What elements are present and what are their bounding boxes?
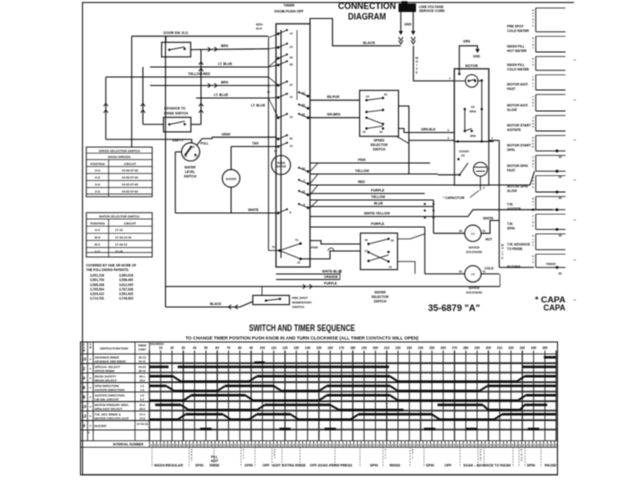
svg-text:BUZZER: BUZZER bbox=[226, 177, 237, 181]
svg-text:SPIN: SPIN bbox=[370, 464, 379, 468]
svg-text:TO CHANGE TIMER POSITION PUSH: TO CHANGE TIMER POSITION PUSH KNOB IN AN… bbox=[186, 336, 420, 341]
wire BLACK service to timer bbox=[310, 19, 401, 46]
wire hot solenoid to white bbox=[481, 221, 499, 234]
wire BRN lower bbox=[150, 85, 269, 87]
svg-text:4PM: 4PM bbox=[470, 134, 476, 138]
wire speed selector corner diagonal bbox=[397, 136, 409, 143]
svg-text:15: 15 bbox=[290, 115, 294, 119]
svg-text:WASH-REGULAR: WASH-REGULAR bbox=[154, 464, 183, 468]
svg-text:80: 80 bbox=[238, 346, 242, 350]
svg-text:170: 170 bbox=[339, 346, 345, 350]
svg-text:180: 180 bbox=[350, 346, 356, 350]
svg-text:50: 50 bbox=[204, 346, 208, 350]
wire crossover bumps bbox=[424, 203, 426, 205]
svg-text:260: 260 bbox=[441, 346, 447, 350]
svg-text:10: 10 bbox=[159, 346, 163, 350]
wire GRN motor ground bbox=[459, 46, 477, 74]
wire PURPLE band bbox=[310, 193, 425, 195]
svg-text:WHITE: WHITE bbox=[248, 208, 259, 212]
wire buzzer bottom bbox=[230, 187, 232, 213]
svg-text:YY: YY bbox=[471, 272, 475, 276]
svg-text:100: 100 bbox=[260, 346, 266, 350]
svg-text:LT. BLUE: LT. BLUE bbox=[218, 62, 233, 66]
svg-text:S-S: S-S bbox=[95, 190, 100, 194]
door switch S1 bbox=[162, 42, 191, 57]
speed selector switch S4 bbox=[360, 90, 399, 136]
wire drop to advance rinse right bbox=[200, 50, 202, 125]
svg-text:WHITE: WHITE bbox=[483, 217, 493, 221]
svg-text:H-S: H-S bbox=[95, 176, 100, 180]
svg-text:3,561,703: 3,561,703 bbox=[90, 278, 104, 282]
svg-text:FULL: FULL bbox=[201, 142, 209, 146]
svg-text:WH-BRN: WH-BRN bbox=[327, 112, 341, 116]
svg-text:3,526,412: 3,526,412 bbox=[90, 292, 104, 296]
wire GRAY bbox=[212, 136, 276, 138]
wire drop to advance rinse left bbox=[142, 67, 144, 124]
svg-text:3,051,218: 3,051,218 bbox=[90, 274, 104, 278]
svg-text:GND: GND bbox=[404, 23, 412, 27]
wire WHITE run bbox=[175, 212, 276, 214]
svg-text:SWITCH: SWITCH bbox=[184, 175, 197, 179]
svg-text:LEVEL: LEVEL bbox=[185, 170, 195, 174]
svg-text:WATER: WATER bbox=[184, 166, 196, 170]
wire door switch upper bbox=[132, 35, 269, 37]
svg-text:RINSE: RINSE bbox=[390, 464, 401, 468]
svg-text:S-H: S-H bbox=[95, 183, 100, 187]
timer left wire fan bbox=[269, 34, 279, 38]
svg-text:BLUE: BLUE bbox=[374, 202, 384, 206]
svg-text:CONNECTION: CONNECTION bbox=[338, 1, 396, 11]
svg-text:190: 190 bbox=[361, 346, 367, 350]
chart outer frame bbox=[81, 342, 558, 475]
svg-text:3,580,018: 3,580,018 bbox=[119, 274, 133, 278]
svg-text:ORANGE: ORANGE bbox=[324, 275, 338, 279]
svg-text:64-65 67-65: 64-65 67-65 bbox=[122, 190, 139, 194]
svg-text:65: 65 bbox=[384, 93, 388, 97]
svg-text:150: 150 bbox=[316, 346, 322, 350]
svg-text:320: 320 bbox=[508, 346, 514, 350]
start switch contacts bbox=[457, 158, 459, 160]
svg-text:SWITCH: SWITCH bbox=[374, 299, 387, 303]
svg-text:MOTOR SPIN: MOTOR SPIN bbox=[507, 185, 528, 189]
svg-text:SOLENOID: SOLENOID bbox=[466, 250, 483, 254]
svg-text:26-11: 26-11 bbox=[139, 359, 146, 363]
svg-text:MOTOR START: MOTOR START bbox=[507, 144, 531, 148]
svg-text:PAUSE: PAUSE bbox=[545, 464, 557, 468]
svg-text:KNOB-PUSH OFF: KNOB-PUSH OFF bbox=[274, 10, 304, 14]
svg-text:230: 230 bbox=[407, 346, 413, 350]
svg-text:E: E bbox=[502, 256, 504, 260]
buzzer B1 bbox=[222, 170, 240, 188]
page frame border bbox=[82, 2, 574, 4]
svg-text:MOMENTARY: MOMENTARY bbox=[292, 301, 313, 305]
svg-text:XX: XX bbox=[471, 105, 475, 109]
svg-text:COVERED BY ONE OR MORE OF: COVERED BY ONE OR MORE OF bbox=[86, 264, 136, 268]
wire WHITE service to motor bbox=[413, 46, 454, 81]
svg-text:PURPLE: PURPLE bbox=[371, 222, 385, 226]
svg-text:75: 75 bbox=[272, 245, 276, 249]
water level switch S3 bbox=[182, 143, 200, 161]
svg-text:SPIN: SPIN bbox=[527, 464, 536, 468]
svg-text:70: 70 bbox=[227, 346, 231, 350]
svg-text:GRN-BLK: GRN-BLK bbox=[421, 128, 436, 132]
svg-text:COLD WATER: COLD WATER bbox=[507, 29, 530, 33]
svg-text:240: 240 bbox=[418, 346, 424, 350]
timer right contacts group bbox=[307, 95, 310, 98]
svg-text:LT. BLUE: LT. BLUE bbox=[251, 104, 266, 108]
wire white main drop bbox=[498, 140, 500, 267]
svg-text:E: E bbox=[416, 70, 418, 74]
wire BLACK bottom bbox=[166, 302, 253, 308]
svg-text:SPIN-AGIT SELECT: SPIN-AGIT SELECT bbox=[95, 407, 123, 411]
svg-text:RD-PUR: RD-PUR bbox=[327, 95, 340, 99]
chart left column lines bbox=[87, 342, 89, 441]
svg-text:AGITATE: AGITATE bbox=[507, 207, 522, 211]
svg-text:PRE SPOT: PRE SPOT bbox=[507, 25, 524, 29]
wire start to yellow bbox=[438, 174, 460, 176]
motor M1 box bbox=[454, 69, 489, 142]
svg-text:3,612,095: 3,612,095 bbox=[119, 283, 133, 287]
svg-text:AGIT: AGIT bbox=[211, 459, 219, 463]
svg-text:200: 200 bbox=[373, 346, 379, 350]
svg-text:BLK: BLK bbox=[256, 27, 263, 31]
svg-text:12: 12 bbox=[297, 261, 301, 265]
svg-text:GND: GND bbox=[473, 55, 481, 59]
svg-text:SWITCH AND TIMER SEQUENCE: SWITCH AND TIMER SEQUENCE bbox=[249, 323, 355, 333]
svg-text:AGIT: AGIT bbox=[272, 464, 281, 468]
svg-text:O: O bbox=[532, 178, 534, 180]
svg-text:POSITION: POSITION bbox=[90, 162, 104, 166]
svg-text:SOAK - ADVANCE TO WASH: SOAK - ADVANCE TO WASH bbox=[463, 464, 511, 468]
cam profile bars bbox=[149, 362, 557, 364]
svg-text:TIMER: TIMER bbox=[277, 161, 285, 165]
svg-text:SWITCH: SWITCH bbox=[292, 305, 305, 309]
wire stub table drop bbox=[131, 36, 133, 147]
wire timer motor stem bbox=[280, 148, 282, 156]
svg-text:17-19: 17-19 bbox=[115, 228, 123, 232]
svg-text:T.M. ADVANCE: T.M. ADVANCE bbox=[507, 242, 531, 246]
svg-text:27: 27 bbox=[290, 83, 294, 87]
svg-text:WASH SPEEDS: WASH SPEEDS bbox=[108, 155, 131, 159]
svg-text:86: 86 bbox=[559, 271, 563, 275]
svg-text:BUZZER: BUZZER bbox=[95, 424, 108, 428]
svg-text:81: 81 bbox=[290, 137, 294, 141]
svg-text:17-18-19-43: 17-18-19-43 bbox=[115, 235, 132, 239]
svg-text:18-2: 18-2 bbox=[139, 378, 145, 382]
svg-text:250: 250 bbox=[429, 346, 435, 350]
svg-text:CIRCUIT: CIRCUIT bbox=[124, 162, 136, 166]
svg-text:C-C: C-C bbox=[95, 250, 101, 254]
svg-text:220: 220 bbox=[395, 346, 401, 350]
pre-spot momentary switch S6 bbox=[253, 295, 290, 304]
wire YELLOW band 2 bbox=[310, 199, 434, 201]
wire cold solenoid to buzzer line bbox=[481, 273, 499, 275]
svg-text:32: 32 bbox=[302, 166, 306, 170]
svg-text:RPM: RPM bbox=[470, 110, 477, 114]
svg-text:YELLOW: YELLOW bbox=[355, 169, 370, 173]
svg-text:ADVANCE 2ND RINSE: ADVANCE 2ND RINSE bbox=[95, 359, 126, 363]
svg-text:SLOW: SLOW bbox=[507, 108, 518, 112]
svg-text:OFF-SOAK-PERM PRESS: OFF-SOAK-PERM PRESS bbox=[310, 464, 353, 468]
svg-text:WATER SELECTOR SWITCH: WATER SELECTOR SWITCH bbox=[99, 215, 139, 219]
wire full to gray bbox=[197, 137, 212, 145]
svg-text:TIMER: TIMER bbox=[138, 344, 146, 348]
svg-text:BRN: BRN bbox=[221, 80, 229, 84]
timer box T1 bbox=[276, 24, 310, 267]
wire service cord leads bbox=[400, 12, 402, 32]
wire PURPLE long bbox=[166, 286, 500, 288]
svg-text:TAN: TAN bbox=[252, 142, 259, 146]
svg-text:110: 110 bbox=[271, 346, 276, 350]
wire PURPLE band 2 bbox=[310, 226, 425, 228]
table speed selector switch bbox=[86, 147, 152, 197]
svg-text:SPEED SELECTOR SWITCH: SPEED SELECTOR SWITCH bbox=[99, 149, 141, 153]
svg-text:O: O bbox=[532, 25, 534, 27]
timer lower contacts 75 79 12 bbox=[278, 249, 281, 252]
chart header separators bbox=[81, 353, 558, 355]
svg-text:WASH FILL: WASH FILL bbox=[507, 63, 525, 67]
wire to water level switch bbox=[106, 139, 192, 143]
svg-text:BLACK: BLACK bbox=[210, 302, 222, 306]
chart grid vertical lines bbox=[148, 351, 150, 441]
svg-text:15: 15 bbox=[290, 95, 294, 99]
svg-text:BRN: BRN bbox=[221, 44, 229, 48]
svg-text:1-3: 1-3 bbox=[140, 388, 144, 392]
wire buzzer top bbox=[230, 147, 232, 170]
cold water solenoid L2 bbox=[425, 273, 465, 275]
svg-text:12: 12 bbox=[302, 190, 306, 194]
wire ORANGE bbox=[276, 279, 340, 281]
svg-text:DRAIN SELECT: DRAIN SELECT bbox=[95, 378, 117, 382]
svg-text:140: 140 bbox=[305, 346, 311, 350]
svg-text:3,598,460: 3,598,460 bbox=[119, 278, 133, 282]
svg-text:BUZZER: BUZZER bbox=[507, 265, 521, 269]
svg-text:64-65 67-66: 64-65 67-66 bbox=[122, 183, 139, 187]
svg-text:18: 18 bbox=[391, 238, 395, 242]
svg-text:YELLOW-RED: YELLOW-RED bbox=[188, 72, 211, 76]
wire capacitor pin2 bbox=[479, 176, 481, 190]
svg-text:ADVANCE TO: ADVANCE TO bbox=[164, 107, 186, 111]
svg-text:10: 10 bbox=[82, 356, 87, 361]
svg-text:310: 310 bbox=[497, 346, 503, 350]
svg-text:19: 19 bbox=[389, 265, 393, 269]
svg-text:15: 15 bbox=[290, 144, 294, 148]
svg-text:MOTOR AGIT.: MOTOR AGIT. bbox=[507, 83, 529, 87]
svg-text:MOTOR CIRCUITS-AGIT: MOTOR CIRCUITS-AGIT bbox=[95, 416, 129, 420]
wire drop cold solenoid bbox=[424, 227, 426, 274]
wire advance rinse row bbox=[143, 123, 164, 125]
svg-text:20: 20 bbox=[459, 269, 463, 273]
svg-text:LT. BLUE: LT. BLUE bbox=[214, 93, 229, 97]
svg-text:300: 300 bbox=[486, 346, 492, 350]
svg-text:330: 330 bbox=[520, 346, 526, 350]
svg-text:30: 30 bbox=[182, 346, 186, 350]
svg-text:43: 43 bbox=[365, 238, 369, 242]
svg-text:GRN: GRN bbox=[463, 40, 471, 44]
svg-text:MOTOR: MOTOR bbox=[276, 164, 286, 168]
wire selector feeds bbox=[301, 251, 361, 259]
svg-text:SLOW: SLOW bbox=[507, 189, 518, 193]
svg-text:5-7: 5-7 bbox=[140, 397, 144, 401]
svg-text:270: 270 bbox=[452, 346, 458, 350]
svg-text:24: 24 bbox=[290, 45, 294, 49]
svg-text:120: 120 bbox=[282, 346, 288, 350]
svg-text:17-9: 17-9 bbox=[139, 416, 145, 420]
svg-text:3,591,925: 3,591,925 bbox=[119, 292, 133, 296]
svg-text:340: 340 bbox=[531, 346, 537, 350]
timer contact exits to wire band bbox=[310, 163, 318, 172]
svg-text:MOTOR START: MOTOR START bbox=[507, 124, 531, 128]
svg-text:EXTRA RINSE: EXTRA RINSE bbox=[282, 464, 306, 468]
connector chevrons service leads bbox=[399, 37, 403, 41]
svg-text:WATER: WATER bbox=[469, 246, 481, 250]
svg-text:DOOR SW. N.O.: DOOR SW. N.O. bbox=[164, 31, 189, 35]
svg-text:RINSE SWITCH: RINSE SWITCH bbox=[164, 112, 189, 116]
svg-text:210: 210 bbox=[384, 346, 390, 350]
svg-text:M: M bbox=[83, 349, 85, 352]
svg-text:DIAGRAM: DIAGRAM bbox=[348, 11, 386, 21]
svg-text:28-12: 28-12 bbox=[139, 369, 147, 373]
svg-text:64: 64 bbox=[366, 95, 370, 99]
svg-text:OFF: OFF bbox=[445, 464, 453, 468]
wire BRN upper bbox=[191, 48, 269, 51]
svg-text:PRE-SPOT: PRE-SPOT bbox=[292, 296, 308, 300]
svg-text:28: 28 bbox=[290, 63, 294, 67]
svg-text:130: 130 bbox=[294, 346, 300, 350]
svg-text:WHITE-BLUE: WHITE-BLUE bbox=[322, 270, 342, 274]
svg-text:35-6879 "A": 35-6879 "A" bbox=[428, 302, 480, 313]
svg-text:SPIN: SPIN bbox=[245, 464, 254, 468]
svg-text:COLD WATER: COLD WATER bbox=[507, 68, 530, 72]
svg-text:15: 15 bbox=[274, 149, 278, 153]
svg-text:20: 20 bbox=[459, 229, 463, 233]
svg-text:CAPA: CAPA bbox=[543, 303, 565, 313]
wire drop yellow-red bbox=[105, 77, 107, 139]
svg-text:G: G bbox=[532, 157, 534, 159]
svg-text:INTERVAL NUMBER: INTERVAL NUMBER bbox=[113, 443, 144, 447]
svg-text:RED: RED bbox=[358, 180, 366, 184]
line voltage service cord plug J1 bbox=[399, 4, 417, 13]
svg-text:HOT WATER: HOT WATER bbox=[507, 49, 527, 53]
wire RED band bbox=[310, 171, 535, 185]
svg-text:TIMER: TIMER bbox=[546, 262, 556, 266]
svg-text:PURPLE: PURPLE bbox=[324, 282, 337, 286]
wire GRN-BLK bbox=[399, 129, 455, 133]
svg-text:PINK: PINK bbox=[358, 158, 366, 162]
motor internal bus right bbox=[481, 81, 483, 142]
wire WHITE-YELLOW band bbox=[310, 210, 553, 217]
svg-text:160: 160 bbox=[328, 346, 334, 350]
table water selector switch bbox=[86, 213, 152, 257]
svg-text:280: 280 bbox=[463, 346, 469, 350]
svg-text:64-66 67-66: 64-66 67-66 bbox=[122, 169, 139, 173]
svg-text:26-3: 26-3 bbox=[139, 407, 145, 411]
wire WH-BRN bbox=[310, 117, 360, 119]
svg-text:BLACK: BLACK bbox=[363, 41, 376, 45]
svg-text:* CAPACITOR: * CAPACITOR bbox=[443, 196, 465, 200]
svg-text:65: 65 bbox=[380, 130, 384, 134]
svg-text:FAST: FAST bbox=[507, 87, 515, 91]
wire selector output right bbox=[398, 234, 425, 239]
svg-text:62: 62 bbox=[302, 91, 306, 95]
motor pin 1 wire bbox=[489, 139, 499, 141]
svg-text:W-H: W-H bbox=[95, 235, 101, 239]
svg-text:SPIN: SPIN bbox=[507, 227, 515, 231]
svg-text:POSITION: POSITION bbox=[90, 222, 104, 226]
wire BLUE band bbox=[310, 206, 434, 208]
svg-text:GRAY: GRAY bbox=[222, 133, 232, 137]
svg-text:T.M.: T.M. bbox=[507, 202, 513, 206]
svg-text:SWITCH FUNCTION: SWITCH FUNCTION bbox=[100, 347, 128, 351]
hot water solenoid L1 bbox=[434, 232, 465, 234]
svg-text:20: 20 bbox=[170, 346, 174, 350]
wire t.m. agitate feed bbox=[532, 209, 534, 211]
timer left contacts group bbox=[277, 33, 280, 36]
wire LT. BLUE upper bbox=[150, 66, 269, 68]
svg-text:RINSE: RINSE bbox=[210, 464, 220, 468]
svg-text:SPEED: SPEED bbox=[374, 139, 386, 143]
svg-text:3,588,268: 3,588,268 bbox=[90, 283, 104, 287]
svg-text:290: 290 bbox=[474, 346, 480, 350]
svg-text:HOT: HOT bbox=[486, 237, 493, 241]
svg-text:MOTOR: MOTOR bbox=[465, 64, 478, 68]
svg-text:79: 79 bbox=[295, 238, 299, 242]
svg-text:CIRCUIT: CIRCUIT bbox=[124, 222, 136, 226]
svg-text:66: 66 bbox=[302, 103, 306, 107]
svg-text:MOTOR SPIN: MOTOR SPIN bbox=[507, 164, 528, 168]
svg-text:YY: YY bbox=[471, 232, 475, 236]
bus crossover bumps bbox=[267, 84, 269, 86]
svg-text:YELLOW: YELLOW bbox=[371, 195, 386, 199]
svg-text:WASH FILL: WASH FILL bbox=[507, 45, 525, 49]
svg-text:AGITATE DIRECTION: AGITATE DIRECTION bbox=[95, 388, 125, 392]
program label separators bbox=[151, 447, 153, 467]
svg-text:WATER: WATER bbox=[374, 290, 386, 294]
svg-text:64-66 67-65: 64-66 67-65 bbox=[122, 176, 139, 180]
wire long vertical to black wire bbox=[165, 36, 167, 307]
timer motor M2 bbox=[272, 156, 291, 175]
svg-text:W-C: W-C bbox=[95, 242, 102, 246]
svg-text:COLD: COLD bbox=[485, 267, 495, 271]
svg-text:3,767,028: 3,767,028 bbox=[119, 287, 133, 291]
wire YELLOW-RED bbox=[106, 76, 269, 78]
wire YELLOW band bbox=[310, 173, 438, 175]
svg-text:TIMER: TIMER bbox=[284, 3, 295, 7]
svg-text:H-C: H-C bbox=[95, 228, 101, 232]
wire TAN bbox=[231, 146, 276, 148]
svg-text:SPIN: SPIN bbox=[426, 464, 435, 468]
svg-text:FAST: FAST bbox=[507, 168, 515, 172]
wire RD-PUR bbox=[310, 99, 360, 101]
svg-text:SPIN: SPIN bbox=[195, 464, 204, 468]
wire WHITE-BLUE bbox=[276, 273, 340, 275]
svg-text:PINK: PINK bbox=[311, 246, 319, 250]
wire door box stem bbox=[165, 36, 167, 42]
svg-text:17-18-19: 17-18-19 bbox=[115, 242, 127, 246]
wire PINK band bbox=[310, 162, 430, 164]
svg-text:40: 40 bbox=[193, 346, 197, 350]
wire LT. BLUE lower bbox=[196, 97, 269, 99]
capacitor C1 bbox=[473, 162, 487, 176]
svg-text:3,795,594: 3,795,594 bbox=[90, 287, 104, 291]
start switch box bbox=[454, 142, 488, 186]
svg-text:26: 26 bbox=[290, 56, 294, 60]
svg-text:21: 21 bbox=[483, 229, 487, 233]
svg-text:SPIN: SPIN bbox=[507, 148, 515, 152]
water selector switch S5 bbox=[360, 233, 397, 270]
scan cut marks right edge bbox=[574, 59, 577, 61]
svg-text:XX: XX bbox=[461, 154, 465, 158]
